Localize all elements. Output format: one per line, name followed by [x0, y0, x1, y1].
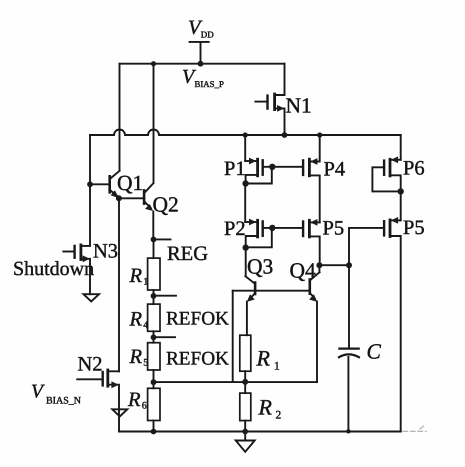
wire cap node down to capacitor [348, 265, 350, 347]
transistor P1 [245, 135, 303, 184]
resistor R2 [240, 393, 251, 421]
svg-text:2: 2 [276, 410, 282, 422]
transistor Q2 [119, 183, 153, 211]
ground bottom [236, 441, 255, 452]
wire R4 to node [153, 331, 155, 342]
svg-text:BIAS_N: BIAS_N [46, 396, 81, 407]
svg-text:5: 5 [143, 358, 148, 369]
wire Q2 emitter vertical [152, 212, 154, 240]
svg-text:Q4: Q4 [290, 259, 317, 283]
resistor R4 [148, 304, 160, 331]
junction P2 gate [269, 225, 275, 231]
transistor N2 [77, 370, 119, 432]
transistor P5 right [384, 191, 401, 431]
svg-text:1: 1 [274, 361, 280, 373]
svg-text:Q3: Q3 [247, 255, 273, 279]
wire bottom rail [119, 431, 401, 433]
svg-text:DD: DD [201, 30, 214, 40]
svg-text:REFOK: REFOK [166, 349, 229, 370]
svg-text:P6: P6 [403, 158, 425, 180]
svg-text:R: R [129, 265, 143, 287]
svg-text:Q1: Q1 [117, 171, 143, 195]
faint scan artifact line [403, 425, 426, 431]
wire Q2 collector vertical [153, 64, 155, 183]
junction P6 drain [398, 188, 404, 194]
wire R1m to node [244, 371, 246, 393]
transistor N1 [255, 94, 284, 135]
label R1 [129, 265, 149, 288]
junction P1 gate [269, 164, 275, 170]
transistor Q1 [90, 171, 120, 198]
node VDD terminal [190, 42, 209, 64]
wire Q1 emitter to N2 [118, 198, 120, 371]
junction R6-rail [151, 429, 157, 435]
label R1 middle [256, 346, 281, 373]
wire bases line [233, 290, 310, 292]
svg-text:N2: N2 [78, 354, 103, 376]
label R2 [258, 395, 282, 422]
svg-text:R: R [129, 309, 143, 331]
svg-text:6: 6 [142, 401, 147, 412]
junction rail2-N1 [282, 132, 288, 138]
svg-text:4: 4 [143, 320, 148, 331]
svg-text:P2: P2 [224, 218, 246, 240]
svg-text:R: R [256, 346, 271, 371]
junction R5-R6 node [151, 379, 157, 385]
junction rail1-Q2 [151, 61, 156, 66]
svg-text:C: C [367, 340, 382, 364]
wire N1 drain vertical [284, 64, 286, 95]
transistor Q3 [245, 247, 255, 335]
svg-text:P5: P5 [403, 217, 425, 239]
junction Q1 emitter node [116, 195, 122, 201]
svg-text:P5: P5 [323, 218, 345, 240]
wire feedback horizontal [154, 381, 318, 383]
junction P2 drain Q3 collector [243, 244, 249, 250]
label VBIAS_N [31, 382, 81, 407]
junction rail2-P4 [317, 132, 322, 137]
transistor P4 [303, 135, 320, 222]
svg-text:V: V [31, 382, 45, 403]
svg-text:R: R [129, 346, 143, 368]
ground arrow on N2 source [112, 409, 127, 416]
transistor P2 [245, 219, 303, 248]
svg-text:R: R [127, 389, 141, 411]
wire cap node up to P5 gate wire [349, 228, 383, 265]
resistor R5 [148, 343, 160, 370]
junction Q1 base tee [87, 181, 93, 187]
wire rail1 VDD [120, 63, 285, 65]
wire bases bracket vertical [232, 291, 234, 382]
svg-text:BIAS_P: BIAS_P [195, 79, 224, 89]
transistor P6 [372, 135, 400, 191]
svg-text:Shutdown: Shutdown [13, 258, 94, 280]
junction R1m R2 node [242, 379, 248, 385]
svg-text:N3: N3 [93, 241, 118, 263]
svg-text:P4: P4 [324, 159, 346, 181]
wire rail2 with hops [90, 130, 401, 136]
wire Q1 collector vertical [119, 64, 121, 171]
wire R2 to rail [244, 421, 246, 441]
label R6 [127, 389, 147, 412]
svg-text:N1: N1 [286, 94, 312, 118]
svg-text:REFOK: REFOK [166, 309, 229, 330]
resistor R6 [148, 388, 160, 420]
node VBIAS_P label [182, 66, 224, 89]
svg-text:1: 1 [143, 277, 148, 288]
transistor P5 middle [303, 219, 320, 265]
wire REG to R1 [153, 239, 155, 258]
junction REFOK tap1 [151, 293, 157, 299]
svg-text:REG: REG [167, 243, 208, 265]
node VDD label [188, 17, 214, 40]
node REG junction and tick [151, 237, 157, 243]
junction rail1-VDD [198, 61, 204, 67]
wire R1 to node [153, 290, 155, 304]
wire P1 source to P2 [244, 184, 246, 222]
wire R5 to node [153, 370, 155, 388]
svg-text:P1: P1 [224, 158, 246, 180]
label R4 [129, 309, 149, 332]
junction P1 drain [242, 180, 248, 186]
junction cap node [346, 262, 352, 268]
transistor N3 [63, 245, 90, 294]
svg-text:R: R [258, 395, 273, 420]
svg-text:Q2: Q2 [153, 193, 179, 217]
wire Q4 collector to cap node [319, 264, 349, 266]
label R5 [129, 346, 149, 369]
junction Q4 collector [316, 262, 322, 268]
junction REFOK tap2 [151, 334, 157, 340]
capacitor C [339, 349, 359, 432]
wire R6 to rail [153, 421, 155, 432]
ground below N3 [84, 294, 100, 301]
transistor Q4 [309, 265, 319, 382]
junction rail2-P1 [243, 132, 248, 137]
wire left vertical to N3 [89, 135, 91, 246]
junction capacitor-rail [346, 429, 350, 433]
resistor R1 middle [240, 335, 251, 371]
resistor R1 [148, 258, 160, 290]
junction R2-rail [242, 429, 248, 435]
